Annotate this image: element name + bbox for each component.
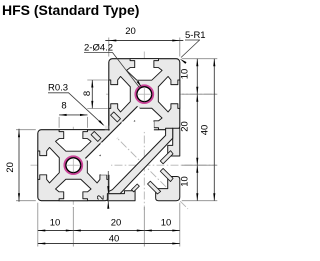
svg-text:5-R1: 5-R1 (185, 30, 206, 41)
svg-text:20: 20 (125, 26, 136, 37)
svg-text:20: 20 (180, 121, 191, 132)
svg-text:20: 20 (5, 162, 16, 173)
svg-text:10: 10 (180, 69, 191, 80)
svg-text:10: 10 (50, 218, 61, 229)
svg-text:40: 40 (109, 234, 120, 245)
svg-text:10: 10 (161, 218, 172, 229)
svg-text:8: 8 (82, 91, 93, 96)
svg-text:R0.3: R0.3 (48, 83, 68, 94)
svg-text:20: 20 (111, 218, 122, 229)
svg-text:2: 2 (96, 195, 107, 200)
svg-text:2-Ø4.2: 2-Ø4.2 (84, 43, 113, 54)
svg-text:40: 40 (200, 125, 211, 136)
svg-text:10: 10 (180, 176, 191, 187)
svg-text:8: 8 (61, 101, 66, 112)
